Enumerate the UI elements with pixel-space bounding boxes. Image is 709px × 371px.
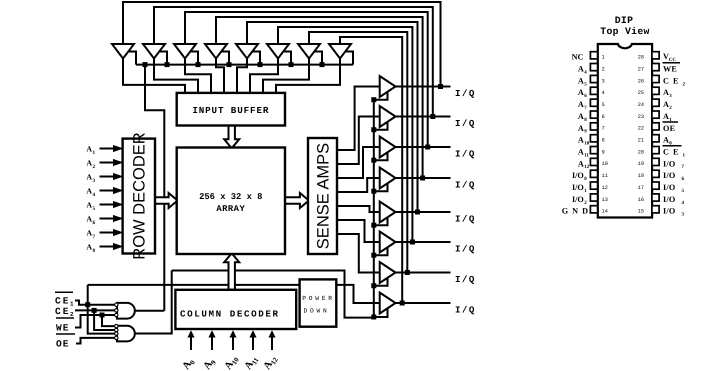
block POWER DOWN U7 bbox=[300, 279, 337, 326]
svg-text:2: 2 bbox=[93, 164, 96, 170]
pin 25 bbox=[652, 87, 659, 94]
buffer B2 (data-out, pointing right) bbox=[380, 106, 396, 127]
gate G2 input bubble bbox=[115, 328, 118, 331]
wire SENSE AMPS out 5 to buffer B5 input bbox=[337, 206, 380, 212]
pin 4 bbox=[590, 87, 597, 94]
svg-text:6: 6 bbox=[93, 220, 96, 226]
wire G2 output riser V2 bbox=[136, 271, 172, 334]
wire B2 output to I/O pad bbox=[396, 116, 451, 118]
svg-text:1: 1 bbox=[70, 301, 74, 308]
wire B3 output to I/O pad bbox=[396, 146, 451, 148]
svg-text:7: 7 bbox=[602, 126, 605, 132]
svg-text:13: 13 bbox=[602, 197, 608, 203]
junction WE tap bbox=[100, 313, 105, 318]
svg-text:C E: C E bbox=[663, 76, 679, 85]
buffer T4 (data-in, pointing down) bbox=[205, 44, 227, 59]
node A7 row address input bbox=[100, 232, 115, 234]
wire I/O4 feedback loop (bus line 5) bbox=[247, 22, 418, 212]
arrow ARRAY to SENSE AMPS bbox=[285, 193, 309, 208]
svg-text:SENSE AMPS: SENSE AMPS bbox=[314, 143, 332, 249]
label CE1 (active low) bbox=[55, 291, 73, 293]
node A3 row address input bbox=[100, 176, 115, 178]
svg-text:6: 6 bbox=[602, 114, 605, 120]
svg-text:1: 1 bbox=[602, 55, 605, 61]
svg-text:A: A bbox=[578, 65, 584, 74]
pin 2 bbox=[590, 64, 597, 71]
wire B8 output to I/O pad bbox=[396, 302, 451, 304]
enable stub B8 bbox=[374, 309, 388, 317]
svg-text:8: 8 bbox=[602, 138, 605, 144]
junction B2 output on bus bbox=[430, 114, 435, 119]
wire I/O3 feedback loop (bus line 4) bbox=[216, 17, 423, 178]
node A0 column address input bbox=[190, 336, 192, 350]
svg-text:2: 2 bbox=[70, 311, 74, 318]
label OE (active low) bbox=[56, 333, 75, 335]
buffer T2 (data-in, pointing down) bbox=[143, 44, 165, 59]
svg-text:I/O: I/O bbox=[663, 159, 675, 168]
node A9 column address input bbox=[211, 336, 213, 350]
svg-text:A: A bbox=[578, 159, 584, 168]
enable stub B5 bbox=[374, 218, 388, 225]
svg-text:I/Q: I/Q bbox=[455, 213, 476, 224]
pin 5 bbox=[590, 99, 597, 106]
node A2 row address input bbox=[100, 162, 115, 164]
block INPUT BUFFER U2 bbox=[177, 93, 285, 126]
svg-text:Top View: Top View bbox=[600, 26, 649, 37]
wire T4 output to INPUT BUFFER bbox=[216, 59, 224, 93]
svg-text:3: 3 bbox=[93, 178, 96, 184]
pin 27 bbox=[652, 64, 659, 71]
svg-text:3: 3 bbox=[602, 78, 605, 84]
wire B7 output to I/O pad bbox=[396, 272, 451, 274]
svg-text:25: 25 bbox=[638, 90, 644, 96]
wire CE1 input bbox=[75, 301, 117, 305]
wire WE tap to gate G2 bbox=[102, 315, 117, 326]
node A8 row address input bbox=[100, 246, 115, 248]
svg-text:I/O: I/O bbox=[572, 183, 584, 192]
enable stub B6 bbox=[374, 248, 388, 255]
svg-text:I/O: I/O bbox=[663, 171, 675, 180]
junction B1 output on bus bbox=[438, 84, 443, 89]
wire CE1 tap to gate G2 bbox=[88, 285, 117, 334]
svg-text:11: 11 bbox=[584, 152, 589, 158]
junction on input-enable bus x=145 bbox=[143, 62, 148, 67]
svg-text:A: A bbox=[86, 159, 92, 168]
pin 3 bbox=[590, 75, 597, 82]
wire I/O7 feedback loop (bus line 8) bbox=[340, 37, 402, 303]
wire B5 output to I/O pad bbox=[396, 211, 451, 213]
wire output-buffer enable vertical bbox=[373, 98, 375, 318]
svg-text:11: 11 bbox=[602, 173, 608, 179]
pin 28 bbox=[652, 52, 659, 59]
wire T8 output to INPUT BUFFER bbox=[276, 59, 340, 93]
wire SENSE AMPS out 2 to buffer B2 input bbox=[337, 117, 380, 165]
node A1 row address input bbox=[100, 148, 115, 150]
buffer T3 (data-in, pointing down) bbox=[174, 44, 196, 59]
junction on input-enable bus x=260 bbox=[258, 62, 263, 67]
gate G2 input bubble bbox=[115, 324, 118, 327]
input-enable bus bbox=[136, 64, 353, 66]
pin 18 bbox=[652, 170, 659, 177]
enable stub T6 bbox=[284, 52, 291, 65]
svg-text:4: 4 bbox=[93, 192, 96, 198]
svg-text:I/O: I/O bbox=[572, 171, 584, 180]
pin 15 bbox=[652, 206, 659, 213]
svg-text:I/O: I/O bbox=[663, 195, 675, 204]
buffer B3 (data-out, pointing right) bbox=[380, 137, 396, 158]
DIP package body U8 bbox=[598, 44, 652, 218]
svg-text:4: 4 bbox=[602, 90, 605, 96]
svg-text:22: 22 bbox=[638, 126, 644, 132]
svg-text:23: 23 bbox=[638, 114, 644, 120]
buffer B6 (data-out, pointing right) bbox=[380, 232, 396, 253]
wire G1 output to V1 bbox=[136, 310, 165, 312]
svg-text:A: A bbox=[86, 243, 92, 252]
svg-text:20: 20 bbox=[638, 149, 644, 155]
svg-text:DOWN: DOWN bbox=[303, 307, 329, 314]
svg-text:A: A bbox=[578, 88, 584, 97]
enable stub T8 bbox=[346, 52, 353, 65]
wire WE input bbox=[75, 315, 117, 328]
pin 11 bbox=[590, 170, 597, 177]
svg-text:I/Q: I/Q bbox=[455, 148, 476, 159]
junction B5 output on bus bbox=[415, 210, 420, 215]
pin 21 bbox=[652, 135, 659, 142]
svg-text:CC: CC bbox=[669, 57, 677, 63]
wire SENSE AMPS out 4 to buffer B4 input bbox=[337, 178, 380, 192]
node A6 row address input bbox=[100, 218, 115, 220]
svg-text:12: 12 bbox=[602, 185, 608, 191]
pin 7 bbox=[590, 123, 597, 130]
svg-text:14: 14 bbox=[602, 209, 608, 215]
svg-text:15: 15 bbox=[638, 209, 644, 215]
svg-text:A: A bbox=[86, 173, 92, 182]
gate G2 input bubble bbox=[115, 332, 118, 335]
svg-text:A: A bbox=[578, 76, 584, 85]
arrow INPUT BUFFER to ARRAY bbox=[224, 126, 239, 149]
svg-text:OE: OE bbox=[56, 339, 69, 350]
wire CE2 input bbox=[75, 309, 117, 311]
pin 1 bbox=[590, 52, 597, 59]
wire I/O6 feedback loop (bus line 7) bbox=[309, 32, 407, 273]
svg-text:28: 28 bbox=[638, 55, 644, 61]
buffer B4 (data-out, pointing right) bbox=[380, 168, 396, 189]
node A10 column address input bbox=[232, 336, 234, 350]
svg-text:CE: CE bbox=[55, 296, 70, 307]
gate G2 bbox=[117, 326, 135, 342]
wire T7 output to INPUT BUFFER bbox=[263, 59, 309, 93]
pin 9 bbox=[590, 147, 597, 154]
node A4 row address input bbox=[100, 190, 115, 192]
junction B3 output on bus bbox=[425, 145, 430, 150]
svg-text:19: 19 bbox=[638, 161, 644, 167]
wire B1 output to I/O pad bbox=[396, 86, 451, 88]
pin 23 bbox=[652, 111, 659, 118]
svg-text:21: 21 bbox=[638, 138, 644, 144]
pin 10 bbox=[590, 158, 597, 165]
buffer T1 (data-in, pointing down) bbox=[112, 44, 134, 59]
wire T3 output to INPUT BUFFER bbox=[185, 59, 211, 93]
svg-text:10: 10 bbox=[602, 161, 608, 167]
buffer T7 (data-in, pointing down) bbox=[298, 44, 320, 59]
junction on input-enable bus x=198 bbox=[196, 62, 201, 67]
svg-text:A: A bbox=[86, 187, 92, 196]
wire SENSE AMPS out 6 to buffer B6 input bbox=[337, 220, 380, 242]
junction CE2 tap bbox=[92, 308, 97, 313]
buffer B7 (data-out, pointing right) bbox=[380, 262, 396, 283]
wire B6 output to I/O pad bbox=[396, 241, 451, 243]
gate G1 input bubble bbox=[115, 313, 118, 316]
svg-text:9: 9 bbox=[602, 149, 605, 155]
arrow COLUMN DECODER to ARRAY bbox=[224, 253, 239, 290]
svg-text:1: 1 bbox=[93, 150, 96, 156]
wire CE1 line to buffer B8 input bbox=[88, 285, 380, 303]
junction B4 output on bus bbox=[420, 176, 425, 181]
buffer B8 (data-out, pointing right) bbox=[380, 293, 396, 314]
enable stub B2 bbox=[374, 123, 388, 130]
svg-text:NC: NC bbox=[572, 53, 584, 62]
wire input-enable bus to gate G1 output (via jog) bbox=[145, 65, 164, 311]
pin 16 bbox=[652, 194, 659, 201]
enable stub T1 bbox=[129, 52, 136, 65]
arrow ROW DECODER to ARRAY bbox=[155, 193, 178, 208]
pin 19 bbox=[652, 158, 659, 165]
svg-text:26: 26 bbox=[638, 78, 644, 84]
svg-text:POWER: POWER bbox=[302, 295, 335, 302]
block COLUMN DECODER U6 bbox=[175, 290, 296, 329]
svg-text:I/Q: I/Q bbox=[455, 179, 476, 190]
junction B7 output on bus bbox=[405, 270, 410, 275]
gate G2 input bubble bbox=[115, 336, 118, 339]
block 256x32x8 ARRAY U3 bbox=[177, 148, 285, 255]
buffer T5 (data-in, pointing down) bbox=[236, 44, 258, 59]
block ROW DECODER U4 bbox=[123, 139, 155, 254]
gate G1 bbox=[117, 303, 135, 319]
enable stub T2 bbox=[160, 52, 167, 65]
enable stub T7 bbox=[315, 52, 322, 65]
wire I/O2 feedback loop (bus line 3) bbox=[185, 12, 428, 147]
junction on input-enable bus x=322 bbox=[320, 62, 325, 67]
junction CE1 tap bbox=[85, 302, 90, 307]
svg-text:5: 5 bbox=[602, 102, 605, 108]
svg-text:8: 8 bbox=[93, 248, 96, 254]
svg-text:2: 2 bbox=[602, 66, 605, 72]
svg-text:16: 16 bbox=[638, 197, 644, 203]
enable stub B3 bbox=[374, 153, 388, 160]
svg-text:27: 27 bbox=[638, 66, 644, 72]
pin 22 bbox=[652, 123, 659, 130]
wire SENSE AMPS out 1 to buffer B1 input bbox=[337, 87, 380, 151]
pin 12 bbox=[590, 182, 597, 189]
svg-text:256 x 32 x 8: 256 x 32 x 8 bbox=[199, 192, 262, 202]
junction on input-enable bus x=167 bbox=[165, 62, 170, 67]
wire I/O0 feedback loop (bus line 1) bbox=[123, 2, 441, 87]
svg-text:OE: OE bbox=[663, 124, 676, 133]
svg-text:DIP: DIP bbox=[615, 15, 634, 26]
junction on input-enable bus x=229 bbox=[227, 62, 232, 67]
node A11 column address input bbox=[252, 336, 254, 350]
svg-text:WE: WE bbox=[56, 322, 69, 333]
wire T2 output to INPUT BUFFER bbox=[154, 59, 198, 93]
svg-text:C E: C E bbox=[663, 148, 679, 157]
svg-text:18: 18 bbox=[638, 173, 644, 179]
wire SENSE AMPS out 3 to buffer B3 input bbox=[337, 147, 380, 178]
svg-text:12: 12 bbox=[584, 164, 590, 170]
enable stub T5 bbox=[253, 52, 260, 65]
wire T5 output to INPUT BUFFER bbox=[237, 59, 247, 93]
wire output-enable run to buffer enable line bbox=[172, 271, 374, 318]
svg-text:A: A bbox=[86, 215, 92, 224]
buffer T8 (data-in, pointing down) bbox=[329, 44, 351, 59]
svg-text:17: 17 bbox=[638, 185, 644, 191]
label WE (active low) bbox=[56, 317, 74, 319]
wire OE input bbox=[76, 338, 117, 344]
svg-text:7: 7 bbox=[93, 234, 96, 240]
svg-text:I/Q: I/Q bbox=[455, 243, 476, 254]
svg-text:I/Q: I/Q bbox=[455, 274, 476, 285]
pin 20 bbox=[652, 147, 659, 154]
svg-text:A: A bbox=[86, 229, 92, 238]
svg-text:INPUT BUFFER: INPUT BUFFER bbox=[192, 105, 269, 116]
wire B4 output to I/O pad bbox=[396, 177, 451, 179]
svg-text:ARRAY: ARRAY bbox=[216, 204, 245, 214]
wire I/O5 feedback loop (bus line 6) bbox=[278, 27, 412, 242]
gate G1 input bubble bbox=[115, 309, 118, 312]
enable stub T3 bbox=[191, 52, 198, 65]
svg-text:A: A bbox=[578, 124, 584, 133]
svg-text:ROW DECODER: ROW DECODER bbox=[131, 132, 149, 260]
svg-text:10: 10 bbox=[584, 141, 590, 147]
block SENSE AMPS U5 bbox=[308, 138, 337, 254]
svg-text:CE: CE bbox=[55, 306, 70, 317]
pin 6 bbox=[590, 111, 597, 118]
svg-text:A: A bbox=[86, 145, 92, 154]
gate G1 input bubble bbox=[115, 303, 118, 306]
buffer T6 (data-in, pointing down) bbox=[267, 44, 289, 59]
pin 26 bbox=[652, 75, 659, 82]
pin 17 bbox=[652, 182, 659, 189]
svg-text:A: A bbox=[578, 100, 584, 109]
svg-text:WE: WE bbox=[663, 65, 677, 74]
wire CE2 tap to gate G2 bbox=[94, 310, 117, 330]
enable stub B4 bbox=[374, 184, 388, 191]
wire I/O1 feedback loop (bus line 2) bbox=[154, 7, 433, 117]
svg-text:A: A bbox=[86, 201, 92, 210]
svg-text:A: A bbox=[578, 148, 584, 157]
pin 24 bbox=[652, 99, 659, 106]
node A5 row address input bbox=[100, 204, 115, 206]
svg-text:G N D: G N D bbox=[562, 207, 589, 216]
buffer B5 (data-out, pointing right) bbox=[380, 202, 396, 223]
svg-text:I/Q: I/Q bbox=[455, 118, 476, 129]
svg-text:24: 24 bbox=[638, 102, 644, 108]
pin 14 bbox=[590, 206, 597, 213]
svg-text:I/Q: I/Q bbox=[455, 304, 476, 315]
pin 8 bbox=[590, 135, 597, 142]
junction B6 output on bus bbox=[410, 240, 415, 245]
junction B8 output on bus bbox=[400, 301, 405, 306]
buffer B1 (data-out, pointing right) bbox=[380, 76, 396, 97]
pin 13 bbox=[590, 194, 597, 201]
wire SENSE AMPS out 7 to buffer B7 input bbox=[337, 234, 380, 273]
svg-text:I/O: I/O bbox=[572, 195, 584, 204]
svg-text:A: A bbox=[578, 136, 584, 145]
junction on input-enable bus x=291 bbox=[289, 62, 294, 67]
enable stub B7 bbox=[374, 279, 388, 286]
svg-text:I/O: I/O bbox=[663, 183, 675, 192]
svg-text:5: 5 bbox=[93, 206, 96, 212]
wire T6 output to INPUT BUFFER bbox=[250, 59, 278, 93]
enable stub T4 bbox=[222, 52, 229, 65]
enable stub B1 bbox=[374, 93, 388, 100]
node A12 column address input bbox=[271, 336, 273, 350]
wire T1 output to INPUT BUFFER bbox=[123, 59, 185, 93]
svg-text:A: A bbox=[578, 112, 584, 121]
svg-text:COLUMN DECODER: COLUMN DECODER bbox=[180, 309, 280, 320]
svg-text:I/Q: I/Q bbox=[455, 88, 476, 99]
svg-text:I/O: I/O bbox=[663, 207, 675, 216]
